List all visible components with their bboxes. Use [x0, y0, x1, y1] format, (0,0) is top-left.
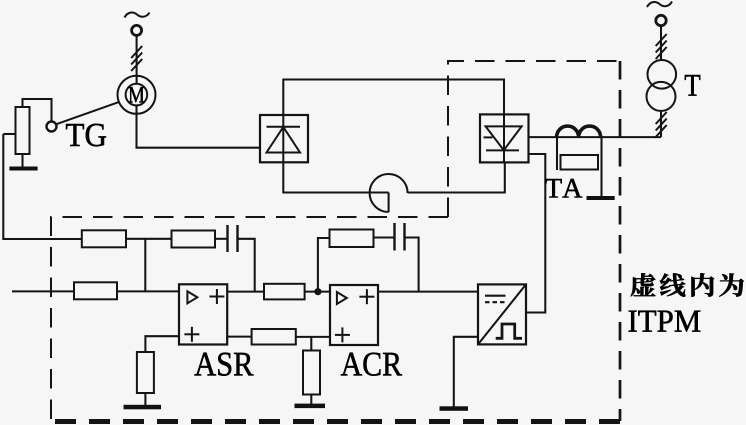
- TA right lead: [600, 137, 602, 196]
- wire C1 to ASR output: [238, 239, 255, 292]
- op-amp ASR box: [179, 284, 227, 344]
- label ITPM: [629, 311, 701, 332]
- break slashes below transformer: [656, 112, 667, 137]
- wire ASR output: [227, 291, 264, 293]
- resistor R1 speed feedback: [82, 230, 126, 247]
- resistor R2 ASR feedback: [172, 231, 216, 248]
- capacitor C1: [228, 225, 238, 252]
- TA secondary resistor: [561, 155, 599, 170]
- break slashes above transformer: [656, 34, 667, 59]
- ITPM dashed boundary bottom: [51, 419, 620, 424]
- left thyristor symbol: [267, 115, 301, 162]
- wire TG feedback down left side: [3, 134, 82, 239]
- wire resistor to ground: [144, 393, 146, 405]
- transformer T: [647, 60, 677, 111]
- resistor R0 reference input: [74, 282, 117, 299]
- right rectifier box: [480, 114, 529, 162]
- resistor ACR ground leg: [303, 351, 320, 395]
- TA left lead: [556, 137, 558, 170]
- break slashes on motor supply wire: [131, 46, 142, 71]
- label TA: [545, 179, 582, 198]
- TG wiper circle: [47, 122, 57, 132]
- wire junction down ACR leg: [310, 337, 312, 351]
- top bridge wire: [283, 80, 504, 116]
- resistor R3: [264, 284, 305, 300]
- wire R1 to junction: [126, 238, 172, 240]
- wire junction down to input node: [144, 239, 146, 292]
- wire TG bottom to ground: [21, 154, 23, 167]
- capacitor C2: [395, 223, 405, 251]
- ground ACR: [295, 404, 326, 409]
- ACR plus bottom: [335, 327, 350, 342]
- loop symbol (freewheel hop): [370, 174, 408, 212]
- TG output tap stub: [3, 133, 15, 135]
- ITPM dashed boundary right: [619, 61, 622, 421]
- resistor R4: [252, 329, 296, 345]
- wire ACR output to trigger unit: [378, 291, 478, 293]
- wire R5 to C2: [374, 236, 395, 238]
- ground ASR: [124, 405, 162, 410]
- ITPM dashed boundary top-left: [51, 217, 448, 421]
- trigger unit GTF box: [478, 284, 526, 344]
- label TG: [66, 124, 106, 147]
- motor M: [118, 76, 156, 114]
- op-amp ACR box: [330, 285, 378, 345]
- wire rectifier to transformer: [529, 136, 662, 138]
- GTF ground wire: [454, 337, 478, 407]
- wire resistor to ground ACR: [310, 395, 312, 405]
- current transformer TA humps: [557, 126, 601, 137]
- motor supply terminal circle: [132, 25, 142, 35]
- TA ground bar: [587, 196, 615, 200]
- ASR ground leg wire: [145, 336, 179, 352]
- AC source tilde (transformer): [647, 2, 672, 8]
- label ACR: [341, 353, 402, 376]
- left rectifier box: [260, 115, 308, 162]
- GTF dc symbol: [485, 296, 506, 303]
- mechanical link motor-TG: [56, 102, 120, 125]
- label inside-dashed-is: [631, 273, 656, 296]
- right thyristor symbol: [484, 114, 522, 162]
- bottom bridge wire right: [408, 162, 505, 192]
- wire R0 to ASR: [117, 290, 179, 292]
- ground TG: [9, 167, 37, 171]
- resistor ASR ground leg: [137, 352, 154, 393]
- wire R2 to C1: [215, 238, 228, 240]
- wire terminal to transformer: [660, 26, 662, 61]
- ACR plus top: [359, 289, 374, 304]
- ASR plus bottom: [184, 327, 199, 342]
- bottom bridge wire left: [283, 162, 388, 192]
- TG potentiometer resistor: [16, 107, 30, 154]
- wire motor to left rectifier: [137, 105, 261, 147]
- ASR triangle: [187, 291, 197, 303]
- resistor R5 ACR feedback: [330, 230, 374, 248]
- gate wire from trigger unit: [526, 154, 545, 313]
- label T: [685, 75, 700, 96]
- wire R3 to ACR: [305, 291, 330, 293]
- wire transformer down: [660, 111, 662, 137]
- ITPM dashed boundary notch: [448, 61, 620, 217]
- wire supply to motor: [136, 35, 138, 84]
- ground GTF: [440, 406, 469, 411]
- wire R4 to ACR lower: [296, 336, 330, 338]
- wire TG top to wiper: [23, 99, 52, 122]
- GTF diagonal: [478, 284, 526, 344]
- junction node dot: [314, 288, 321, 295]
- GTF pulse symbol: [496, 324, 522, 338]
- speed reference input wire: [12, 290, 74, 292]
- wire ASR lower to R4: [227, 336, 251, 338]
- AC source tilde (motor supply): [125, 12, 150, 17]
- ASR plus top: [209, 289, 224, 304]
- ACR triangle: [337, 292, 347, 304]
- label ASR: [194, 353, 253, 376]
- wire node up to ACR feedback: [318, 238, 330, 292]
- transformer terminal circle: [656, 15, 666, 25]
- wire C2 to ACR output: [405, 238, 419, 292]
